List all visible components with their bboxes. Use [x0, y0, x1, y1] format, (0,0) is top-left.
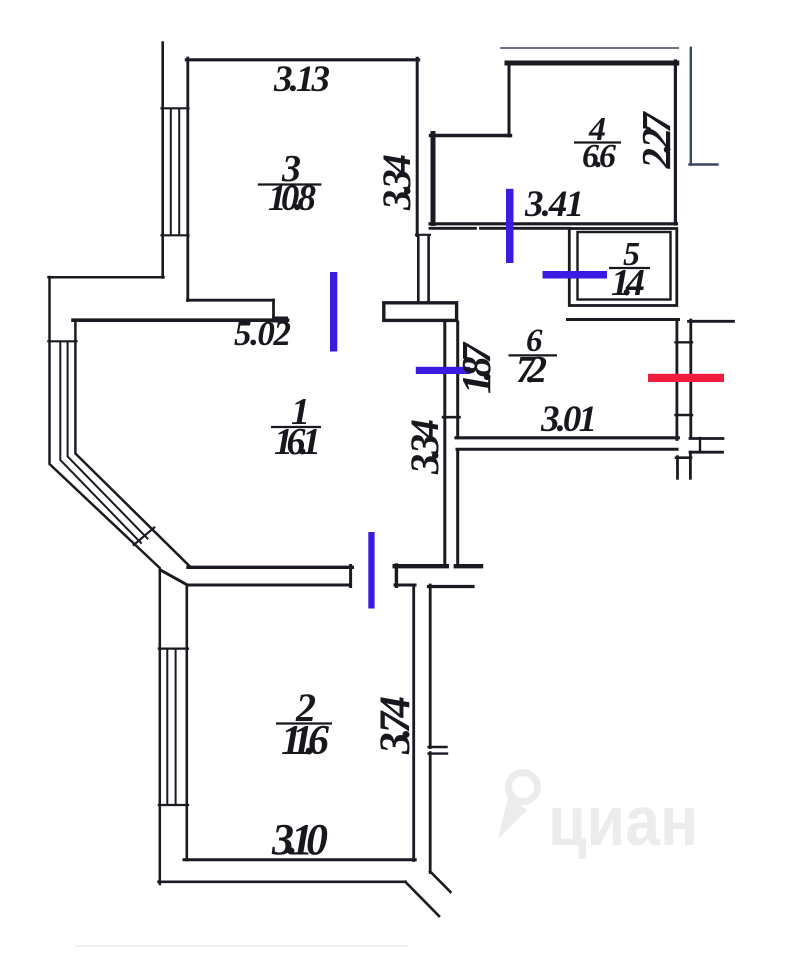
svg-text:3.13: 3.13	[273, 59, 330, 100]
svg-text:11.6: 11.6	[281, 718, 329, 764]
svg-text:5.02: 5.02	[234, 314, 291, 353]
svg-text:1.87: 1.87	[453, 342, 499, 395]
svg-text:2.27: 2.27	[633, 111, 679, 170]
svg-text:3.41: 3.41	[524, 184, 584, 225]
svg-text:3.01: 3.01	[540, 399, 597, 440]
svg-text:3.74: 3.74	[372, 696, 419, 755]
svg-text:циан: циан	[548, 782, 698, 860]
svg-text:3.34: 3.34	[402, 419, 447, 475]
svg-text:3.10: 3.10	[271, 815, 328, 864]
svg-text:3.34: 3.34	[374, 154, 419, 211]
